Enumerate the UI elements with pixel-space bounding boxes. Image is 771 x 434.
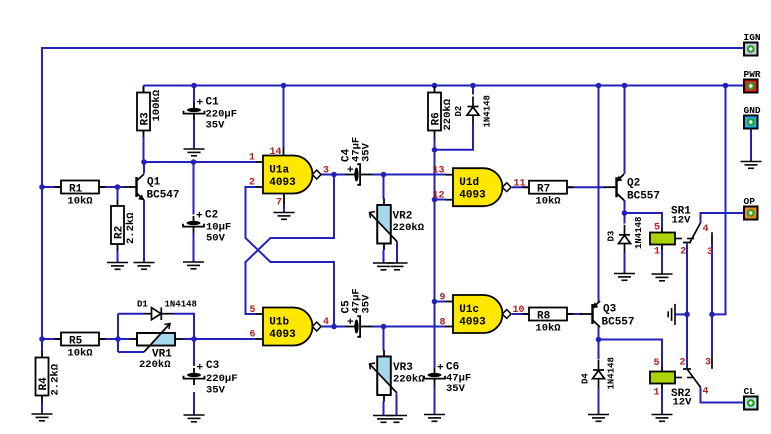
wire to VR2 top [383, 175, 385, 200]
wire R2 bottom to ground [117, 250, 119, 263]
svg-text:4: 4 [323, 317, 329, 328]
junction U1a output [331, 172, 337, 178]
resistor R7 [523, 181, 574, 208]
svg-text:50V: 50V [206, 233, 226, 245]
wire C3 to ground [193, 392, 195, 415]
svg-text:Q2: Q2 [627, 178, 640, 190]
ground (SR1 coil) [652, 274, 673, 281]
junction C4/VR2 [381, 172, 387, 178]
junction PWR/Q2 emitter [622, 83, 628, 89]
svg-text:10: 10 [513, 305, 525, 316]
wire SR1 pin2 to SR2 pin2 [686, 244, 688, 370]
svg-text:R5: R5 [69, 336, 83, 348]
ground (VR2 wiper) [387, 263, 408, 270]
svg-text:220kΩ: 220kΩ [393, 222, 425, 234]
connector OP [744, 196, 758, 220]
resistor R8 [523, 308, 574, 335]
wire node to Q1 collector [143, 162, 145, 174]
diode D3 [619, 225, 631, 253]
ground (GND connector) [741, 162, 762, 169]
svg-text:5: 5 [654, 223, 660, 234]
junction PWR/C1 [191, 83, 197, 89]
wire to U1c pin9 [435, 301, 447, 303]
svg-text:IGN: IGN [744, 32, 761, 43]
svg-text:R7: R7 [537, 184, 550, 196]
junction Q3 collector/D4/SR2 [596, 337, 602, 343]
svg-text:BC557: BC557 [627, 191, 660, 203]
junction C2 [191, 159, 197, 165]
junction VR1/C3/U1b pin6 [191, 336, 197, 342]
svg-text:11: 11 [514, 178, 526, 189]
svg-text:R4: R4 [38, 377, 50, 391]
svg-text:35V: 35V [361, 142, 373, 162]
junction PWR/U1a pin14 [281, 83, 287, 89]
NAND gate U1b (4093) [256, 308, 322, 346]
junction pin12 [432, 197, 438, 203]
capacitor C1 [184, 98, 205, 121]
svg-text:R1: R1 [69, 184, 83, 196]
wire C5 to U1c pin8 [372, 326, 446, 328]
wire U1c output to R8 [512, 313, 529, 315]
wire R7 to Q2 base [567, 186, 606, 188]
svg-text:10kΩ: 10kΩ [67, 348, 93, 360]
svg-text:R2: R2 [114, 226, 126, 239]
wire to VR1 wiper [118, 351, 144, 353]
svg-text:2: 2 [249, 178, 255, 189]
ground (C1) [184, 149, 205, 156]
potentiometer VR2 [370, 199, 425, 251]
junction contact common/ground [684, 312, 690, 318]
svg-text:10kΩ: 10kΩ [67, 196, 93, 208]
svg-text:+: + [437, 363, 444, 375]
svg-text:4093: 4093 [459, 316, 486, 328]
connector GND [744, 105, 761, 129]
svg-text:U1a: U1a [269, 165, 289, 177]
svg-text:9: 9 [439, 292, 445, 303]
relay SR1 coil [650, 206, 694, 258]
svg-text:D2: D2 [454, 106, 464, 117]
svg-text:13: 13 [432, 165, 444, 176]
svg-text:4093: 4093 [459, 190, 486, 202]
wire R1 to Q1 base [99, 186, 124, 188]
wire PWR to contacts pin3 [712, 86, 726, 315]
svg-text:BC547: BC547 [147, 190, 180, 202]
svg-text:C1: C1 [206, 97, 220, 109]
resistor R5 [55, 333, 106, 360]
svg-text:12V: 12V [673, 397, 693, 409]
ground (C6) [424, 415, 445, 422]
wire R5 to VR1 [100, 338, 131, 340]
wire D2 to timing net [435, 124, 474, 150]
svg-text:10kΩ: 10kΩ [535, 196, 561, 208]
capacitor C5 [346, 316, 373, 337]
svg-text:R8: R8 [537, 311, 551, 323]
svg-text:3: 3 [705, 358, 711, 369]
svg-text:5: 5 [653, 358, 659, 369]
svg-text:D3: D3 [607, 231, 617, 242]
svg-text:220kΩ: 220kΩ [442, 98, 454, 130]
ground (VR2) [373, 263, 394, 270]
junction R5/D1/VR1 [115, 336, 121, 342]
junction C5/VR3 [381, 324, 387, 330]
wire PWR to C1 [193, 86, 195, 105]
svg-text:C2: C2 [205, 210, 218, 222]
ground (R2) [107, 263, 128, 270]
svg-text:12: 12 [432, 190, 444, 201]
junction Q2 collector/D3/SR1 [622, 210, 628, 216]
ground (U1a pin7) [274, 213, 295, 220]
resistor R3 [137, 86, 152, 137]
ground (C3) [184, 415, 205, 422]
wire PWR rail [144, 85, 745, 87]
wire D1 cathode to node [173, 314, 194, 339]
junction U1b output [331, 324, 337, 330]
NAND gate U1a (4093) [256, 156, 322, 194]
resistor R2 [111, 200, 137, 251]
svg-text:Q3: Q3 [603, 304, 617, 316]
svg-text:4: 4 [703, 387, 709, 398]
wire Q1 emitter to ground [143, 200, 145, 263]
svg-text:+: + [196, 211, 203, 223]
svg-text:1: 1 [653, 388, 659, 399]
svg-text:7: 7 [276, 198, 282, 209]
svg-text:14: 14 [270, 147, 282, 158]
wire VR1 to U1b pin6 [183, 338, 256, 340]
connector IGN [744, 32, 761, 56]
ground (D4) [588, 415, 609, 422]
capacitor C6 [424, 363, 445, 386]
junction PWR/contacts [723, 83, 729, 89]
svg-text:3: 3 [323, 165, 329, 176]
diode D2 [467, 97, 479, 125]
svg-text:10kΩ: 10kΩ [535, 323, 561, 335]
junction bus/R1 [39, 184, 45, 190]
capacitor C3 [184, 363, 205, 386]
wire U1a output to C4 [322, 174, 346, 176]
wire Q3 collector to SR2 coil [599, 340, 663, 367]
wire to D1 anode [118, 313, 144, 315]
svg-text:2: 2 [680, 247, 686, 258]
wire D4 to ground [598, 388, 600, 415]
wire U1d output to R7 [512, 186, 529, 188]
svg-text:VR3: VR3 [393, 362, 413, 374]
ground (Q1 emitter) [134, 263, 155, 270]
svg-text:220kΩ: 220kΩ [393, 374, 425, 386]
junction bus/R5 [39, 336, 45, 342]
svg-text:+: + [347, 317, 354, 329]
svg-text:220μF: 220μF [206, 373, 238, 385]
connector CL [744, 386, 758, 410]
wire D3 to ground [624, 252, 626, 274]
junction PWR/Q3 emitter [596, 83, 602, 89]
transistor Q2 [604, 174, 624, 200]
resistor R1 [55, 181, 106, 208]
svg-text:6: 6 [249, 330, 255, 341]
relay SR2 coil [650, 358, 694, 409]
svg-text:U1c: U1c [459, 304, 479, 316]
svg-text:35V: 35V [446, 383, 466, 395]
ground (C2) [183, 262, 204, 269]
wire VR2 bottom to ground [383, 250, 385, 263]
wire R5 node vertical (D1/VR1) [117, 314, 119, 352]
NAND gate U1c (4093) [446, 295, 512, 333]
wire Q2 collector to SR1 coil [625, 213, 663, 228]
diode D4 [593, 360, 605, 388]
svg-text:35V: 35V [206, 120, 226, 132]
wire bus to R5 [42, 338, 61, 340]
svg-text:CL: CL [744, 386, 756, 397]
svg-text:+: + [347, 165, 354, 177]
svg-text:1N4148: 1N4148 [634, 217, 644, 249]
wire IGN rail + left bus [42, 48, 744, 352]
svg-text:OP: OP [744, 196, 756, 207]
relay SR2 contacts [679, 356, 712, 397]
wire SR2 coil to ground [661, 389, 663, 415]
resistor R4 [36, 351, 62, 402]
svg-text:+: + [197, 98, 204, 110]
svg-text:4: 4 [703, 224, 709, 235]
wire U1a output to U1b pin5 (net B) [246, 175, 335, 315]
wire SR1 pin3 to SR2 pin3 [711, 244, 713, 356]
wire node to D3 [624, 213, 626, 224]
svg-text:D4: D4 [581, 373, 591, 384]
wire R4 bottom to ground [41, 402, 43, 414]
U1a pin14 stub [283, 148, 285, 156]
svg-text:2.2kΩ: 2.2kΩ [125, 212, 137, 244]
svg-text:220kΩ: 220kΩ [139, 359, 171, 371]
ground (D3) [614, 274, 635, 281]
svg-text:12V: 12V [672, 215, 692, 227]
junction PWR/D2 [470, 83, 476, 89]
wire R6/D2 timing net down to C6 [434, 137, 436, 369]
resistor R6 [428, 86, 454, 137]
wire PWR to U1a pin14 [283, 86, 285, 148]
wire PWR to Q3 emitter [598, 86, 600, 302]
svg-text:R3: R3 [140, 112, 152, 126]
svg-text:100kΩ: 100kΩ [151, 89, 163, 121]
wire PWR to R3 top [143, 86, 145, 93]
wire SR2 pin4 to CL [701, 388, 745, 403]
wire OP to SR1 pin4 [701, 213, 745, 223]
wire R8 to Q3 base [567, 313, 582, 315]
wire C4 to U1d pin13 [372, 174, 446, 176]
svg-text:3: 3 [707, 247, 713, 258]
ground (VR3) [373, 416, 394, 423]
svg-text:1: 1 [249, 153, 255, 164]
svg-text:PWR: PWR [744, 69, 761, 80]
junction contact NC/PWR [709, 312, 715, 318]
svg-text:35V: 35V [361, 294, 373, 314]
wire collector node to U1a pin1 [144, 161, 256, 163]
wire C1 to ground [193, 120, 195, 149]
potentiometer VR3 [370, 350, 426, 402]
relay SR1 contacts [680, 223, 713, 258]
wire base node to R2 top [117, 187, 119, 201]
NAND gate U1d (4093) [446, 168, 512, 206]
svg-text:1N4148: 1N4148 [483, 95, 493, 127]
svg-text:GND: GND [744, 105, 761, 116]
transistor Q1 [124, 174, 144, 200]
wire node to C3 [193, 339, 195, 366]
wire PWR to R6 [434, 86, 436, 88]
svg-text:+: + [197, 363, 204, 375]
wire PWR to Q2 emitter [624, 86, 626, 175]
wire PWR to D2 [472, 86, 474, 95]
diode D1 [144, 307, 174, 320]
wire Q3 collector to node [598, 327, 600, 340]
svg-text:8: 8 [439, 317, 445, 328]
svg-text:5: 5 [249, 305, 255, 316]
wire bus to R1 [42, 186, 61, 188]
wire node to D4 [598, 340, 600, 360]
wire contacts pin2 to ground [675, 313, 687, 315]
svg-text:4093: 4093 [269, 177, 296, 189]
ground (R4) [32, 414, 53, 421]
svg-text:1N4148: 1N4148 [165, 300, 197, 310]
transistor Q3 [580, 301, 600, 327]
svg-text:2: 2 [679, 358, 685, 369]
wire C2 to ground [193, 233, 195, 262]
wire C6 to ground [434, 385, 436, 415]
wire GND connector to ground [750, 129, 752, 162]
svg-text:U1d: U1d [459, 177, 479, 189]
svg-text:2.2kΩ: 2.2kΩ [50, 363, 62, 395]
ground (VR3 wiper) [386, 416, 407, 423]
junction R3/Q1 collector [141, 159, 147, 165]
svg-text:1: 1 [654, 247, 660, 258]
svg-text:Q1: Q1 [147, 177, 161, 189]
wire Q2 collector to node [624, 200, 626, 213]
wire U1a pin2 to U1b output (net A) [246, 187, 335, 327]
U1a pin7 stub [283, 194, 285, 205]
wire VR3 wiper to ground [396, 394, 398, 416]
wire U1a pin7 to ground [283, 205, 285, 213]
svg-text:VR2: VR2 [393, 211, 413, 223]
wire to U1d pin12 [435, 199, 447, 201]
junction pin9 [432, 299, 438, 305]
wire VR2 wiper to ground [396, 242, 398, 264]
connector PWR [744, 69, 761, 93]
junction R1/R2/Q1 [115, 184, 121, 190]
capacitor C4 [346, 164, 373, 185]
svg-text:35V: 35V [206, 385, 226, 397]
wire R3 bottom to collector node [143, 137, 145, 162]
wire SR1 coil to ground [661, 250, 663, 274]
ground (relay contacts, rotated) [668, 304, 675, 325]
ground (SR2 coil) [652, 415, 673, 422]
wire node to C2 [193, 162, 195, 215]
potentiometer VR1 [130, 324, 183, 372]
svg-text:1N4148: 1N4148 [607, 357, 617, 389]
capacitor C2 [183, 211, 204, 234]
wire U1b output to C5 [322, 326, 346, 328]
junction PWR/R6 [432, 83, 438, 89]
svg-text:R6: R6 [431, 112, 443, 125]
wire VR3 bottom to ground [383, 402, 385, 416]
wire to VR3 top [383, 327, 385, 351]
svg-text:BC557: BC557 [602, 317, 635, 329]
svg-text:U1b: U1b [269, 317, 289, 329]
svg-text:D1: D1 [137, 300, 148, 310]
svg-text:C3: C3 [206, 360, 220, 372]
svg-text:4093: 4093 [269, 329, 296, 341]
junction R6/D2 [432, 147, 438, 153]
